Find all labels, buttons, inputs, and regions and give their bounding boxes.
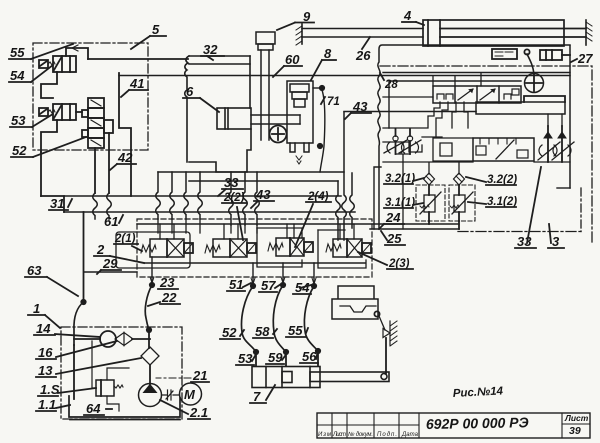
- rail 32 top bars: [189, 55, 250, 57]
- labels 3.1: [384, 197, 423, 209]
- svg-text:39: 39: [569, 425, 581, 437]
- link bar right: [524, 96, 565, 102]
- label 16: [36, 341, 117, 360]
- nodes 53 59 56: [254, 350, 258, 354]
- svg-text:14: 14: [36, 321, 51, 336]
- label 11: [36, 397, 70, 412]
- svg-text:1.S: 1.S: [40, 382, 60, 397]
- label 5: [131, 22, 166, 49]
- label 21: [156, 368, 209, 383]
- svg-text:13: 13: [38, 363, 53, 378]
- label 2.1: [160, 400, 210, 420]
- label 2(1): [114, 233, 142, 251]
- labels 24 25: [379, 210, 404, 229]
- gripper pivot link: [374, 311, 379, 316]
- label 53: [10, 113, 53, 128]
- svg-text:52: 52: [222, 325, 237, 340]
- nodes 23 51 57 54: [150, 283, 154, 287]
- pipe 41 vertical: [119, 73, 131, 196]
- svg-text:61: 61: [104, 214, 118, 229]
- label 22: [148, 290, 180, 306]
- dir valve 2(3): [326, 239, 371, 257]
- hose 52: [241, 286, 256, 352]
- svg-text:4: 4: [403, 8, 412, 23]
- hose 63: [74, 302, 84, 345]
- label 55: [9, 44, 73, 60]
- label 61: [104, 214, 123, 229]
- left wall anchor: [296, 24, 302, 45]
- label 14: [34, 321, 100, 337]
- flow control pair left: [384, 129, 407, 155]
- hose wiggles left pair: [93, 193, 98, 219]
- label 2: [94, 242, 144, 263]
- label 2(3): [358, 252, 413, 270]
- svg-text:71: 71: [327, 96, 340, 108]
- label 41: [121, 76, 148, 97]
- cylinder 7: [252, 367, 389, 388]
- svg-text:3: 3: [552, 234, 560, 249]
- wire to rod end: [385, 373, 386, 374]
- wire right edge top: [569, 46, 571, 188]
- svg-text:Лист: Лист: [564, 413, 589, 423]
- throttle 3.1(1) dashed box: [416, 185, 445, 221]
- svg-text:Подп.: Подп.: [377, 432, 397, 438]
- svg-text:31: 31: [50, 196, 64, 211]
- label 43 upper: [345, 99, 371, 119]
- pipe stack down left: [94, 148, 96, 193]
- stubs to cylinder 7: [256, 351, 318, 366]
- valve 53: [39, 104, 76, 120]
- svg-text:5: 5: [152, 22, 160, 37]
- inner frame around 2(4): [257, 228, 302, 267]
- hose 28 wavy drop: [378, 45, 570, 229]
- svg-text:57: 57: [261, 278, 276, 293]
- svg-text:Лист: Лист: [332, 432, 346, 438]
- hose 22 end drops: [73, 345, 75, 399]
- pilot line with arrow from valve 54: [66, 48, 88, 59]
- pipe valve53 to stack: [76, 111, 82, 113]
- label 32: [201, 42, 224, 60]
- hose 55: [304, 286, 318, 351]
- valve drops to nodes: [152, 257, 314, 285]
- svg-text:6: 6: [186, 84, 194, 99]
- svg-text:25: 25: [386, 231, 402, 246]
- label 54: [9, 65, 53, 83]
- svg-text:54: 54: [10, 68, 25, 83]
- wires around flow controls: [383, 157, 570, 229]
- bottom right corner of inner box: [557, 187, 570, 189]
- lever and roller: [524, 49, 534, 74]
- enclosure 27 dash-dot: [380, 66, 592, 243]
- hose 71 curve: [320, 90, 325, 172]
- wires 24 25: [429, 221, 459, 229]
- label 1: [28, 301, 60, 328]
- valve stack 42: [82, 98, 113, 148]
- flow control pair right: [538, 126, 560, 162]
- cylinder 4 body: [423, 20, 586, 46]
- bus from machine right: [119, 75, 570, 77]
- label 2(4): [295, 191, 331, 247]
- check valves 3.2: [424, 173, 435, 185]
- return line 29: [83, 212, 85, 302]
- frame around valve 2(1): [116, 232, 190, 268]
- svg-text:692Р 00 000 РЭ: 692Р 00 000 РЭ: [426, 414, 529, 432]
- column 60 cap: [256, 32, 275, 140]
- svg-text:60: 60: [285, 52, 300, 67]
- pipe filter to pump: [149, 365, 151, 384]
- svg-text:26: 26: [355, 48, 371, 63]
- svg-text:16: 16: [38, 345, 53, 360]
- bus y181: [189, 180, 338, 182]
- label 28: [380, 73, 398, 91]
- hose 58: [273, 285, 286, 352]
- label 6: [183, 84, 219, 112]
- label 33 right: [515, 167, 541, 249]
- dir valve 2(2): [205, 239, 256, 257]
- label 4: [402, 8, 424, 25]
- svg-text:24: 24: [385, 210, 401, 225]
- svg-text:59: 59: [268, 350, 283, 365]
- filter 13: [141, 347, 159, 365]
- svg-text:32: 32: [203, 42, 218, 57]
- label 27: [571, 51, 593, 66]
- upper spool valve U1: [433, 86, 521, 103]
- svg-text:63: 63: [27, 263, 42, 278]
- pipe valve54 to rail: [88, 58, 188, 60]
- svg-text:№ докум.: № докум.: [348, 431, 373, 438]
- labels 23 51 57 54: [158, 275, 178, 290]
- piston rod of 6: [251, 114, 300, 116]
- svg-text:М: М: [184, 387, 196, 402]
- hose 22: [145, 285, 152, 330]
- label 71: [321, 96, 340, 108]
- title table: [317, 413, 590, 438]
- svg-text:2.1: 2.1: [189, 405, 208, 420]
- label 15: [38, 382, 96, 397]
- enclosure 1 dash-dot: [61, 327, 182, 419]
- valve 54: [39, 56, 76, 72]
- svg-text:Дата: Дата: [401, 432, 419, 438]
- pilot valve right: [540, 50, 562, 60]
- svg-text:Рис.№14: Рис.№14: [453, 385, 504, 400]
- svg-text:7: 7: [253, 389, 261, 404]
- svg-text:8: 8: [324, 46, 332, 61]
- throttle 3.1(2) dashed box: [449, 185, 475, 221]
- label 26: [355, 37, 371, 63]
- labels 52 58 55: [220, 325, 244, 340]
- label 9: [277, 9, 314, 30]
- base plate upper: [476, 102, 565, 114]
- cluster B hoses: [229, 172, 260, 225]
- svg-text:53: 53: [11, 113, 26, 128]
- svg-text:42: 42: [117, 150, 133, 165]
- node on frame 8: [320, 86, 324, 90]
- svg-text:2: 2: [96, 242, 105, 257]
- pilot cylinder left: [492, 49, 517, 59]
- label 63: [25, 263, 78, 296]
- svg-text:41: 41: [129, 76, 144, 91]
- enclosure box 5 (dash-dot): [33, 43, 148, 150]
- wires linking flow controls: [0, 0, 1, 1]
- enclosure 2 dashed: [137, 219, 372, 277]
- gripper block: [332, 286, 378, 319]
- svg-text:27: 27: [577, 51, 593, 66]
- svg-text:53: 53: [238, 351, 253, 366]
- node 22 on line: [147, 328, 151, 332]
- pump 21: [139, 384, 162, 407]
- left bus wires: [40, 152, 42, 196]
- svg-text:28: 28: [384, 79, 398, 91]
- label 29: [97, 256, 121, 274]
- relief valve 15: [92, 341, 129, 411]
- cluster A hoses: [156, 172, 203, 219]
- rod left part: [302, 29, 423, 38]
- svg-text:58: 58: [255, 324, 270, 339]
- label 3 right: [548, 224, 564, 249]
- svg-text:51: 51: [229, 277, 243, 292]
- labels 3.2: [384, 173, 424, 185]
- labels 33 2(2) 43: [218, 175, 243, 196]
- svg-text:43: 43: [255, 187, 271, 202]
- lower spool valve U2: [473, 138, 534, 161]
- label 31: [49, 196, 72, 211]
- svg-text:55: 55: [288, 323, 303, 338]
- gauge circle on column: [270, 126, 287, 143]
- wire drops from upper valve: [383, 102, 448, 137]
- frame 8: [287, 81, 313, 152]
- machine bottom outline: [189, 129, 251, 172]
- gauge 14: [100, 331, 116, 347]
- label 13: [36, 358, 141, 378]
- svg-text:52: 52: [12, 143, 27, 158]
- svg-text:23: 23: [159, 275, 175, 290]
- cylinder 6: [217, 108, 251, 129]
- svg-text:1.1: 1.1: [38, 397, 56, 412]
- svg-text:21: 21: [192, 368, 207, 383]
- bus y173: [158, 171, 344, 173]
- pivot mount: [383, 329, 390, 338]
- svg-text:33: 33: [517, 234, 532, 249]
- machine rail 32 wavy left edge: [185, 56, 189, 162]
- motor 2.1: [180, 383, 202, 405]
- collector wires: [84, 271, 137, 273]
- wire 28 to manifold: [344, 111, 476, 113]
- label 60: [273, 52, 302, 77]
- pipe valve54 down: [43, 72, 55, 96]
- dir valve 2(4): [268, 238, 313, 256]
- tank: [69, 396, 180, 417]
- coupling: [162, 390, 180, 400]
- label 8: [311, 46, 336, 80]
- label 42: [110, 150, 136, 170]
- svg-text:56: 56: [302, 349, 317, 364]
- machine right edge: [249, 56, 251, 108]
- inner frame around 2(3): [318, 230, 366, 268]
- svg-text:64: 64: [86, 401, 101, 416]
- svg-text:33: 33: [224, 175, 239, 190]
- label 52: [11, 137, 86, 158]
- right wall anchor: [586, 20, 592, 45]
- shutoff 16 bowtie: [115, 333, 133, 346]
- labels 53 59 56: [236, 351, 255, 366]
- label 64: [84, 401, 112, 416]
- dir valve 2(1): [141, 239, 193, 257]
- label 7: [250, 385, 275, 404]
- gauge circle with cross: [525, 74, 544, 93]
- svg-text:Изм: Изм: [318, 432, 331, 438]
- svg-text:55: 55: [10, 45, 25, 60]
- left plate of U2: [433, 138, 473, 161]
- svg-text:1: 1: [33, 301, 40, 316]
- svg-text:22: 22: [161, 290, 177, 305]
- cluster C hoses: [336, 112, 355, 240]
